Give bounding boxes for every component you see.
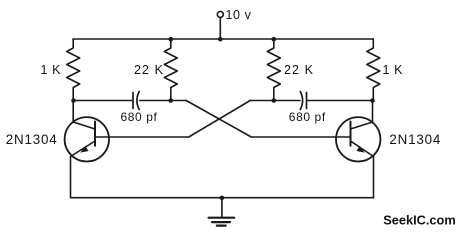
svg-text:10 v: 10 v — [226, 8, 252, 22]
svg-text:680 pf: 680 pf — [289, 110, 326, 124]
svg-text:22 K: 22 K — [284, 63, 314, 77]
svg-text:2N1304: 2N1304 — [389, 132, 441, 147]
svg-text:SeekIC.com: SeekIC.com — [383, 213, 456, 228]
svg-text:22 K: 22 K — [134, 63, 164, 77]
svg-text:1 K: 1 K — [41, 63, 62, 77]
svg-text:1 K: 1 K — [383, 63, 404, 77]
svg-text:2N1304: 2N1304 — [6, 132, 58, 147]
svg-text:680 pf: 680 pf — [121, 110, 158, 124]
